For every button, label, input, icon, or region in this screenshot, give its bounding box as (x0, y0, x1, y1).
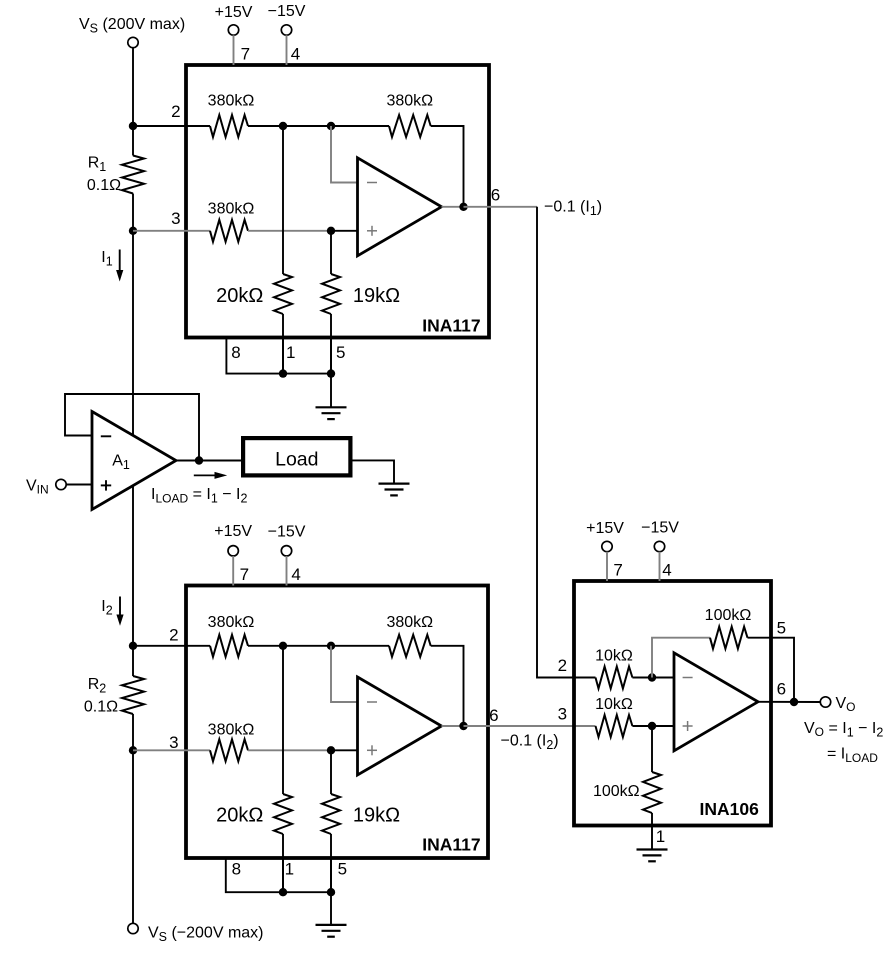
svg-text:100kΩ: 100kΩ (593, 783, 640, 800)
wire output to edge box1 (464, 206, 538, 208)
wire pin8 box1 (226, 338, 331, 374)
svg-text:19kΩ: 19kΩ (353, 805, 400, 827)
wire feedback lead box2 (331, 645, 389, 647)
label pin 5 ina106 (777, 619, 786, 638)
wire feedback right ina106 (748, 638, 795, 702)
svg-text:I1: I1 (101, 249, 112, 269)
wire 10k to minus node ina106 (632, 677, 652, 679)
wire output box1 (442, 206, 464, 208)
label 19k box1 (353, 285, 400, 307)
label ILOAD equation (151, 486, 247, 506)
wire 10k to plus node ina106 (632, 725, 652, 727)
terminal VS negative supply (128, 923, 138, 933)
label pin 5 box1 (336, 343, 345, 362)
label -15V ina106 (641, 520, 679, 537)
wire feedback lead box1 (331, 125, 389, 127)
node output box1 (459, 203, 467, 211)
svg-text:Load: Load (275, 449, 318, 471)
wire plus stub box1 (331, 230, 358, 232)
svg-text:380kΩ: 380kΩ (386, 614, 433, 631)
svg-text:380kΩ: 380kΩ (208, 614, 255, 631)
op-amp ina106 (674, 653, 758, 751)
svg-text:10kΩ: 10kΩ (595, 647, 633, 664)
label 380k feedback box2 (386, 614, 433, 631)
arrow I1 down (116, 250, 123, 282)
opamp minus symbol box2 (367, 701, 377, 703)
label A1 (112, 453, 130, 473)
svg-text:2: 2 (169, 626, 178, 645)
node B box2 (327, 642, 335, 650)
label R1 value 0.1 ohm (87, 177, 121, 194)
node minus ina106 (648, 673, 656, 681)
svg-text:2: 2 (558, 656, 567, 675)
label pin 6 box2 (489, 706, 498, 725)
wire pin3 row box1 (133, 230, 210, 232)
wire Load to ground (352, 460, 394, 483)
svg-text:I2: I2 (101, 598, 112, 618)
label 380k row3 box2 (208, 722, 255, 739)
resistor 380k feedback box1 (389, 115, 431, 137)
wire to summing nodes box1 (248, 125, 331, 127)
wire feedback right box2 (431, 646, 464, 726)
node pin1 bus box1 (279, 369, 287, 377)
label 100k feedback ina106 (705, 607, 752, 624)
svg-text:19kΩ: 19kΩ (353, 285, 400, 307)
svg-text:7: 7 (240, 565, 249, 584)
svg-text:+15V: +15V (586, 520, 624, 537)
label pin 8 box1 (231, 343, 240, 362)
ground at load (379, 484, 410, 496)
label INA117 box1 (422, 316, 480, 336)
label -0.1 I1 (544, 199, 602, 219)
label -0.1 I2 (501, 733, 559, 753)
label VIN (26, 478, 49, 497)
svg-text:3: 3 (171, 209, 180, 228)
wire feedback stub ina106 (652, 638, 710, 678)
resistor 19k box1 (322, 274, 340, 314)
wire A1 output to Load (176, 460, 241, 462)
label pin 7 box2 (240, 565, 249, 584)
wire pin3 to plus node box2 (248, 749, 331, 751)
INA117 box 1 (186, 65, 489, 338)
opamp plus symbol box2 (367, 745, 377, 755)
label pin 2 box1 (171, 102, 180, 121)
svg-text:5: 5 (777, 619, 786, 638)
wire pin1 box2 (282, 858, 284, 892)
opamp minus symbol box1 (367, 182, 377, 184)
svg-text:VIN: VIN (26, 478, 49, 497)
svg-text:8: 8 (231, 343, 240, 362)
wire output2 to INA106 pin3 (464, 725, 596, 727)
node A1 output (195, 456, 203, 464)
terminal VS positive supply (128, 37, 138, 47)
svg-text:1: 1 (656, 827, 665, 846)
svg-text:7: 7 (613, 561, 622, 580)
svg-text:5: 5 (338, 859, 347, 878)
svg-text:20kΩ: 20kΩ (216, 285, 263, 307)
load box (243, 438, 350, 475)
node A box2 (279, 642, 287, 650)
wire pin2 row box1 (133, 125, 210, 127)
resistor 20k box2 (274, 794, 292, 834)
label pin 1 box1 (286, 343, 295, 362)
node plus box2 (327, 746, 335, 754)
resistor R1 (122, 126, 144, 231)
label pin 6 ina106 (777, 680, 786, 699)
terminal -15V box2 (281, 546, 291, 556)
svg-text:ILOAD​ = I1​ − I2: ILOAD​ = I1​ − I2 (151, 486, 247, 506)
label 100k ground ina106 (593, 783, 640, 800)
wire 19k to pin5 box1 (330, 314, 332, 374)
resistor 19k box2 (322, 794, 340, 834)
opamp minus symbol ina106 (683, 677, 693, 679)
label +15V box2 (214, 523, 252, 540)
INA106 box (574, 581, 771, 826)
label +15V ina106 (586, 520, 624, 537)
label pin 3 ina106 (558, 704, 567, 723)
wire plus node down box1 (330, 231, 332, 274)
svg-text:8: 8 (232, 859, 241, 878)
label 20k box2 (216, 805, 263, 827)
svg-text:0.1Ω: 0.1Ω (84, 699, 118, 716)
svg-text:380kΩ: 380kΩ (208, 200, 255, 217)
terminal -15V box1 (281, 25, 291, 35)
wire node A down box2 (282, 646, 284, 794)
wire pin8 box2 (226, 858, 331, 892)
node plus box1 (327, 227, 335, 235)
label ILOAD equation 2 (827, 746, 878, 766)
wire node A down box1 (282, 126, 284, 274)
svg-text:3: 3 (169, 733, 178, 752)
node plus ina106 (648, 722, 656, 730)
label INA117 box2 (422, 835, 480, 855)
node pin3 row box1 (129, 227, 137, 235)
svg-text:INA117: INA117 (422, 316, 480, 336)
label 19k box2 (353, 805, 400, 827)
wire plus node down ina106 (651, 726, 653, 772)
svg-text:−15V: −15V (268, 524, 306, 541)
node pin2 row box2 (129, 642, 137, 650)
svg-text:6: 6 (777, 680, 786, 699)
A1 plus input symbol (101, 480, 111, 490)
node pin3 row box2 (129, 746, 137, 754)
label pin 4 ina106 (662, 561, 671, 580)
svg-text:+15V: +15V (215, 4, 253, 21)
svg-text:−0.1 (I1​): −0.1 (I1​) (544, 199, 602, 219)
svg-text:5: 5 (336, 343, 345, 362)
label VO equation (804, 720, 883, 740)
svg-text:10kΩ: 10kΩ (595, 696, 633, 713)
label pin 3 box2 (169, 733, 178, 752)
terminal +15V ina106 (602, 541, 612, 551)
ground ina106 (637, 850, 668, 862)
wire pin5 box2 (330, 858, 332, 892)
label -15V box2 (268, 524, 306, 541)
node A box1 (279, 122, 287, 130)
resistor 380k input2 box1 (210, 115, 248, 137)
label R2 (88, 676, 107, 696)
resistor 380k input3 box1 (210, 220, 248, 242)
label R2 value 0.1 ohm (84, 699, 118, 716)
wire pin7 box1 (233, 35, 235, 65)
label pin 5 box2 (338, 859, 347, 878)
label pin 1 ina106 (656, 827, 665, 846)
wire pin7 ina106 (606, 552, 608, 581)
svg-text:−15V: −15V (641, 520, 679, 537)
label pin 2 ina106 (558, 656, 567, 675)
terminal +15V box1 (228, 25, 238, 35)
svg-text:3: 3 (558, 704, 567, 723)
resistor 380k input3 box2 (210, 739, 248, 761)
wire bus to ground box2 (330, 892, 332, 925)
wire 19k to pin5 box2 (330, 834, 332, 892)
A1 minus input symbol (101, 435, 111, 437)
ground box2 (316, 925, 347, 937)
label pin 3 box1 (171, 209, 180, 228)
label R1 (88, 155, 107, 175)
wire pin7 box2 (232, 556, 234, 586)
resistor 20k box1 (274, 274, 292, 314)
wire rail to VS- terminal (132, 750, 134, 923)
opamp plus symbol box1 (367, 226, 377, 236)
svg-text:VO: VO (836, 695, 856, 714)
wire output1 down to INA106 pin2 (537, 207, 596, 678)
wire to summing nodes box2 (248, 645, 331, 647)
label 10k input2 ina106 (595, 647, 633, 664)
node pin1 bus box2 (279, 888, 287, 896)
wire output ina106 (758, 701, 820, 703)
label -15V box1 (268, 3, 306, 20)
wire 20k to pin1 box2 (282, 834, 284, 892)
INA117 box 2 (186, 586, 488, 859)
label pin 7 ina106 (613, 561, 622, 580)
resistor 380k feedback box2 (389, 635, 431, 657)
resistor 100k ground ina106 (643, 772, 661, 813)
terminal +15V box2 (228, 546, 238, 556)
svg-text:4: 4 (662, 561, 671, 580)
label pin 4 box1 (291, 45, 300, 64)
op-amp box2 (358, 677, 442, 775)
opamp plus symbol ina106 (683, 721, 693, 731)
svg-text:1: 1 (286, 343, 295, 362)
node pin2 row box1 (129, 122, 137, 130)
label I1 (101, 249, 112, 269)
wire feedback right box1 (431, 126, 464, 207)
wire pin4 box2 (286, 556, 288, 586)
wire pin1 box1 (282, 338, 284, 374)
svg-text:4: 4 (291, 565, 300, 584)
wire minus node to opamp ina106 (652, 677, 674, 679)
wire VS+ terminal to node 1 (132, 48, 134, 126)
wire bus to ground box1 (330, 374, 332, 408)
wire plus node down box2 (330, 750, 332, 794)
resistor 10k input3 ina106 (596, 715, 633, 737)
svg-text:6: 6 (491, 185, 500, 204)
svg-text:20kΩ: 20kΩ (216, 805, 263, 827)
terminal VO (820, 697, 830, 707)
svg-text:R1: R1 (88, 155, 107, 175)
label 380k row3 box1 (208, 200, 255, 217)
resistor 380k input2 box2 (210, 635, 248, 657)
svg-text:−15V: −15V (268, 3, 306, 20)
svg-text:380kΩ: 380kΩ (386, 93, 433, 110)
svg-text:INA106: INA106 (700, 799, 760, 819)
label pin 6 box1 (491, 185, 500, 204)
wire main rail middle (132, 231, 134, 646)
terminal -15V ina106 (654, 541, 664, 551)
resistor 10k input2 ina106 (596, 667, 633, 689)
svg-text:380kΩ: 380kΩ (208, 93, 255, 110)
label pin 7 box1 (241, 45, 250, 64)
svg-text:R2: R2 (88, 676, 107, 696)
label 380k row2 box1 (208, 93, 255, 110)
label 380k feedback box1 (386, 93, 433, 110)
svg-text:7: 7 (241, 45, 250, 64)
label 10k input3 ina106 (595, 696, 633, 713)
svg-text:INA117: INA117 (422, 835, 480, 855)
label VS (-200V max) (148, 925, 264, 945)
svg-text:6: 6 (489, 706, 498, 725)
arrow ILOAD (194, 472, 227, 479)
label pin 8 box2 (232, 859, 241, 878)
ground box1 (316, 407, 347, 419)
node output box2 (459, 722, 467, 730)
node pin5 bus box1 (327, 369, 335, 377)
label VS (200V max) (79, 16, 185, 36)
label INA106 (700, 799, 760, 819)
svg-text:4: 4 (291, 45, 300, 64)
wire output box2 (442, 725, 464, 727)
label 380k row2 box2 (208, 614, 255, 631)
terminal VIN (56, 479, 66, 489)
svg-text:+15V: +15V (214, 523, 252, 540)
label VO (836, 695, 856, 714)
op-amp box1 (358, 158, 442, 256)
wire VIN to A1 (66, 484, 92, 486)
wire pin3 row box2 (133, 749, 210, 751)
svg-text:0.1Ω: 0.1Ω (87, 177, 121, 194)
svg-text:1: 1 (285, 859, 294, 878)
svg-text:2: 2 (171, 102, 180, 121)
label +15V box1 (215, 4, 253, 21)
resistor 100k feedback ina106 (710, 627, 748, 649)
wire plus node to opamp ina106 (652, 725, 674, 727)
wire 100k to pin1 ina106 (651, 813, 653, 850)
svg-text:VO​ = I1​ − I2: VO​ = I1​ − I2 (804, 720, 883, 740)
label I2 (101, 598, 112, 618)
wire plus stub box2 (331, 749, 358, 751)
wire pin4 ina106 (659, 552, 661, 581)
wire pin4 box1 (286, 35, 288, 65)
label pin 1 box2 (285, 859, 294, 878)
resistor R2 (122, 646, 144, 751)
label pin 2 box2 (169, 626, 178, 645)
wire 20k to pin1 box1 (282, 314, 284, 374)
wire pin5 box1 (330, 338, 332, 374)
wire A1 feedback loop (65, 394, 199, 461)
label pin 4 box2 (291, 565, 300, 584)
svg-text:= ILOAD: = ILOAD (827, 746, 878, 766)
node output ina106 (790, 698, 798, 706)
node B box1 (327, 122, 335, 130)
label Load (275, 449, 318, 471)
node pin5 bus box2 (327, 888, 335, 896)
svg-text:VS​ (200V max): VS​ (200V max) (79, 16, 185, 36)
svg-text:VS​ (−200V max): VS​ (−200V max) (148, 925, 264, 945)
wire pin3 to plus node box1 (248, 230, 331, 232)
op-amp A1 (92, 412, 176, 510)
svg-text:−0.1 (I2​): −0.1 (I2​) (501, 733, 559, 753)
label 20k box1 (216, 285, 263, 307)
wire minus stub box2 (331, 646, 358, 702)
wire minus stub box1 (331, 126, 358, 183)
svg-text:100kΩ: 100kΩ (705, 607, 752, 624)
svg-text:380kΩ: 380kΩ (208, 722, 255, 739)
wire pin2 row box2 (133, 645, 210, 647)
arrow I2 down (116, 597, 123, 626)
